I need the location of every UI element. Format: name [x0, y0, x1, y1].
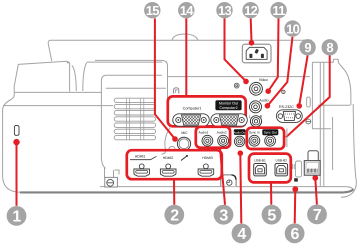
screw right panel: [306, 119, 311, 124]
mid panel line: [168, 76, 310, 78]
svg-text:USB-B2: USB-B2: [276, 158, 288, 162]
line from callout 6: [294, 189, 297, 223]
black mark near callout 6: [294, 178, 298, 181]
svg-text:Computer1: Computer1: [183, 107, 202, 111]
callout 7: [307, 205, 327, 225]
USB-B1 port: [254, 164, 267, 176]
svg-text:Sync In: Sync In: [249, 131, 260, 135]
HDMI1 port: [139, 164, 144, 169]
line from callout 7 to LAN: [315, 178, 317, 205]
svg-text:USB-B1: USB-B1: [254, 158, 266, 162]
svg-text:Audio: Audio: [259, 98, 268, 102]
right edge: [341, 104, 356, 197]
svg-text:Computer2: Computer2: [219, 106, 237, 110]
red box: Computer1 / Computer2 ports (callouts 13,14): [168, 96, 246, 126]
dot at rear panel (callout 13): [243, 79, 249, 85]
center block: [87, 61, 163, 63]
red box: Sync In / Sync Out (callout 8): [247, 128, 284, 149]
svg-text:10: 10: [286, 21, 300, 36]
red box: Audio1/Audio2 (callout 3): [196, 127, 230, 148]
face top line left: [3, 105, 113, 107]
HDMI3 port: [204, 164, 209, 169]
Audio2 RCA: [218, 135, 229, 146]
svg-text:8: 8: [326, 40, 333, 55]
dot at security slot (callout 1): [13, 139, 19, 145]
callout 3: [214, 205, 234, 225]
line from callout 2 to HDMI box: [173, 179, 175, 205]
svg-text:9: 9: [304, 40, 311, 55]
line from callout 10 to audio: [267, 37, 292, 106]
face seam line: [14, 91, 101, 93]
Sync Out BNC: [265, 135, 276, 146]
panel seam right of sync box: [286, 129, 288, 148]
dot at power inlet (callout 12): [249, 40, 255, 46]
left face edge: [3, 86, 20, 193]
svg-text:2: 2: [170, 207, 179, 224]
svg-text:1: 1: [12, 209, 21, 226]
power inlet: [242, 44, 271, 63]
gap curves between blocks: [72, 66, 77, 92]
Audio Out port (callout 4): [234, 129, 246, 135]
dot at Audio port (callout 10): [265, 103, 271, 109]
small panel rect: [295, 161, 301, 177]
red box: HDMI ports (callout 2): [127, 150, 222, 179]
line from callout 11 to video: [268, 18, 278, 91]
dot at MIC port (callout 15): [172, 136, 178, 142]
screw on panel upper left: [234, 83, 239, 88]
VGA port Monitor Out/Computer2: [211, 114, 248, 126]
red box: USB-B ports (callout 5): [249, 154, 291, 183]
svg-text:5: 5: [267, 207, 276, 224]
line from callout 8 to sync box: [286, 56, 330, 138]
dot at RS-232C port (callout 9): [296, 103, 302, 109]
svg-text:Video: Video: [259, 78, 268, 82]
svg-text:12: 12: [244, 3, 258, 18]
line from callout 13: [225, 18, 247, 81]
callout 1: [7, 206, 27, 226]
Audio1 RCA: [202, 135, 213, 146]
line from callout 1 to security slot: [16, 142, 18, 206]
line from callout 15 to MIC: [17, 18, 330, 223]
svg-text:MIC: MIC: [181, 131, 188, 135]
callout 8: [322, 39, 338, 55]
svg-text:13: 13: [218, 3, 232, 18]
bump on top edge: [172, 34, 198, 40]
kensington security slot: [14, 126, 19, 136]
svg-text:HDMI3: HDMI3: [202, 156, 213, 160]
svg-text:4: 4: [237, 226, 246, 243]
screw plate bottom left: [105, 177, 118, 187]
label Monitor Out / Computer2: [215, 100, 241, 110]
LAN port (callout 7): [308, 151, 318, 161]
svg-text:Audio Out: Audio Out: [233, 130, 246, 134]
svg-text:3: 3: [219, 207, 228, 224]
dot at LAN port (callout 7): [312, 175, 318, 181]
callout 13: [216, 2, 232, 18]
HDMI2 port: [166, 164, 171, 169]
svg-text:Audio1: Audio1: [199, 130, 209, 134]
svg-text:14: 14: [180, 3, 195, 18]
right tower: [312, 62, 331, 129]
USB-B2 port: [275, 164, 288, 176]
VGA port Computer1: [173, 114, 210, 126]
bottom thin edge: [100, 187, 354, 190]
vent grille: [114, 98, 155, 140]
callout 10: [284, 20, 300, 36]
screw on panel upper right: [282, 90, 285, 93]
callout 11: [270, 2, 286, 18]
Audio R RCA port: [250, 116, 261, 127]
svg-text:7: 7: [313, 207, 322, 224]
line from callout 12 to power inlet: [250, 18, 253, 41]
callout 2: [164, 205, 184, 225]
svg-text:L: L: [249, 115, 251, 119]
recess frame top-left: [101, 75, 162, 168]
dot at Video port (callout 11): [265, 88, 271, 94]
face top line right: [318, 104, 351, 106]
svg-text:11: 11: [272, 3, 285, 18]
callout 5: [262, 205, 282, 225]
callout 15: [144, 2, 160, 18]
svg-text:15: 15: [146, 3, 160, 18]
curve near MIC recess: [162, 128, 171, 155]
svg-text:Sync Out: Sync Out: [264, 131, 277, 135]
top edge line: [48, 40, 312, 61]
left block (lamp cover): [14, 61, 69, 91]
line from callout 4 to audio out: [240, 153, 241, 223]
svg-text:Audio2: Audio2: [217, 130, 227, 134]
dot at Audio Out port (callout 4): [238, 150, 244, 156]
callout 9: [299, 39, 315, 55]
security cable hook: [174, 88, 179, 94]
callout 12: [242, 2, 258, 18]
line from callout 9 to RS-232C: [299, 56, 307, 106]
dot at rear anchor (callout 6): [292, 186, 298, 192]
filter latch tab: [221, 175, 236, 186]
Sync In BNC: [249, 135, 260, 146]
bottom thick edge: [20, 189, 353, 192]
callout 4: [232, 224, 252, 244]
svg-text:HDMI2: HDMI2: [163, 156, 174, 160]
svg-text:RS-232C: RS-232C: [279, 105, 294, 109]
line from callout 3 to audio box: [220, 148, 225, 205]
callout 14: [178, 2, 194, 18]
callout 6: [285, 223, 305, 243]
svg-text:6: 6: [290, 226, 299, 243]
panel dashes right of USB box: [293, 164, 295, 169]
projector body outline: [3, 34, 357, 197]
line from callout 14 to computer box: [185, 18, 187, 96]
svg-text:HDMI1: HDMI1: [135, 155, 146, 159]
line from callout 5 to USB box: [270, 182, 272, 204]
